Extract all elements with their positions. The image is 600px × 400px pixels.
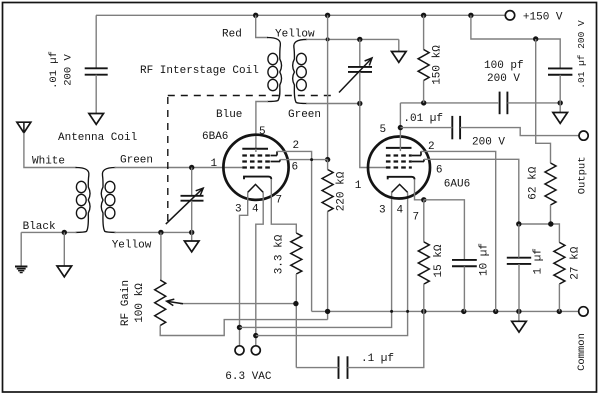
node crossing bus heater3 (390, 310, 393, 313)
V2 grid 1 (386, 166, 412, 168)
variable capacitor C3 interstage tuning (348, 66, 372, 68)
inductor antenna coil primary (76, 168, 91, 233)
V2 pin 6 wire (412, 161, 424, 163)
node junction top rail / screen feed (325, 13, 330, 18)
svg-text:7: 7 (413, 212, 420, 224)
wire Green lead (306, 103, 360, 105)
V2 plate (386, 147, 412, 149)
wire 1uf leads (518, 224, 520, 258)
resistor 150 kOhm (423, 15, 425, 49)
wire C2 bottom lead (191, 201, 193, 233)
V2 heater (392, 184, 408, 192)
node junction top rail / 150k (421, 13, 426, 18)
antenna (17, 122, 31, 133)
svg-text:5: 5 (259, 126, 266, 138)
terminal 6.3VAC right (251, 346, 260, 355)
wire Black lead (21, 231, 76, 233)
wire ground stem bypass (559, 103, 561, 113)
wire Red lead (256, 15, 268, 37)
V2 grid 2 (386, 160, 412, 162)
wiper arrow (167, 301, 183, 304)
arrow of C2 (166, 188, 203, 224)
svg-text:5: 5 (380, 124, 387, 136)
wire coupling left (400, 127, 452, 129)
terminal 6.3VAC left (235, 346, 244, 355)
wire from top rail to C1 (95, 15, 97, 68)
svg-text:6BA6: 6BA6 (202, 131, 228, 143)
inductor antenna coil secondary (101, 168, 116, 233)
wire .1uf right lead (348, 311, 424, 367)
svg-text:RF Interstage Coil: RF Interstage Coil (140, 65, 259, 77)
V2 grid 3 (386, 154, 412, 156)
arrow of C3 (339, 58, 372, 93)
svg-text:7: 7 (276, 195, 283, 207)
ground below bypass cap (553, 113, 568, 124)
wire pot bottom to 220k return (160, 320, 327, 336)
V1 pin 7 wire cathode (271, 179, 296, 233)
svg-text:100 pf: 100 pf (484, 60, 524, 72)
svg-text:6AU6: 6AU6 (444, 178, 470, 190)
capacitor .01 uf coupling (451, 116, 453, 139)
capacitor 100 pf (499, 92, 501, 115)
node junction bus / 10uf (461, 309, 466, 314)
capacitor 1 uf (507, 257, 531, 259)
potentiometer RF Gain 100k (155, 280, 166, 326)
node junction bus / pin2 V2 (493, 309, 498, 314)
svg-text:6: 6 (292, 162, 299, 174)
resistor 15 kOhm (418, 242, 429, 284)
resistor 220 kOhm (322, 170, 333, 212)
svg-text:220 kΩ: 220 kΩ (336, 171, 348, 211)
node junction plate / coupling (398, 125, 403, 130)
wire .1uf left lead (296, 367, 338, 369)
inductor interstage primary (267, 38, 282, 102)
V2 pin 7 wire cathode (415, 179, 424, 199)
svg-text:3: 3 (379, 205, 386, 217)
wire common bus (312, 310, 579, 312)
node junction plate / 150k (421, 100, 426, 105)
svg-text:1: 1 (211, 158, 218, 170)
svg-text:1 µf: 1 µf (533, 248, 545, 274)
wire 15k bottom (423, 284, 425, 311)
node junction grid line / C2 (189, 165, 194, 170)
ground below bus (518, 311, 520, 321)
wire 100pf to bypass node (507, 102, 560, 104)
svg-text:4: 4 (397, 205, 404, 217)
svg-text:6: 6 (436, 165, 443, 177)
wire cap to ground node (559, 75, 561, 103)
wire to ground under C2 (191, 232, 193, 241)
svg-text:Output: Output (576, 156, 588, 194)
svg-text:2: 2 (293, 140, 300, 152)
node crossing bus heater4 (406, 310, 409, 313)
node junction Black lead (62, 230, 67, 235)
node junction 220k top / tube1 pin6 (325, 157, 330, 162)
svg-text:Red: Red (222, 29, 242, 41)
svg-text:200 V: 200 V (472, 137, 505, 149)
svg-text:Green: Green (288, 109, 321, 121)
wire plate feed (400, 102, 498, 104)
node crossing pin2/pin6 (310, 158, 313, 161)
svg-text:Black: Black (23, 221, 56, 233)
node junction yellow line / C3 top (357, 37, 362, 42)
resistor 62 kOhm (545, 163, 556, 205)
node junction cathode V2 (421, 197, 426, 202)
wire antenna to coil (White) (24, 133, 77, 168)
inductor interstage secondary (293, 39, 308, 103)
wire grid feed to tube2 (360, 104, 387, 168)
ground below yellow interstage (392, 52, 407, 63)
wire rf gain top lead (160, 232, 162, 280)
resistor 27 kOhm (554, 242, 565, 284)
ground below C1 (89, 114, 104, 125)
svg-text:Antenna Coil: Antenna Coil (58, 132, 137, 144)
V1 pin 2 wire (271, 155, 278, 157)
node junction 1uf top (516, 221, 521, 226)
wire Yellow lead to ground (306, 38, 399, 40)
V2 pin 5 wire (399, 103, 401, 148)
svg-text:6.3 VAC: 6.3 VAC (225, 371, 272, 383)
wire Green lead to tube1 grid (115, 167, 243, 169)
node junction heater pin3 (237, 325, 242, 330)
node junction heater pin4 (253, 333, 258, 338)
capacitor .1 uf (338, 356, 340, 379)
node junction feed / 62k (533, 36, 538, 41)
wire 62k feed (536, 39, 551, 163)
node junction yellow / rf gain (158, 230, 163, 235)
V2 cathode (388, 177, 415, 180)
node junction yellow / ground (189, 230, 194, 235)
wire C2 top lead (191, 168, 193, 196)
wire +150V top rail (96, 14, 505, 16)
svg-text:200 V: 200 V (63, 54, 75, 86)
svg-text:+150 V: +150 V (523, 11, 563, 23)
wire 62k bottom (550, 205, 552, 224)
V1 grid 3 (242, 154, 270, 156)
wire 3.3k bottom (295, 274, 297, 368)
dashed gang linkage vertical (167, 97, 169, 221)
wire cathode to 10uf (424, 200, 465, 260)
svg-text:Yellow: Yellow (112, 240, 152, 252)
wire Blue lead to tube1 plate (256, 102, 268, 149)
wire C3 top lead (359, 39, 361, 66)
capacitor .01 uf 200 V right (548, 67, 572, 69)
svg-text:Green: Green (120, 155, 153, 167)
variable capacitor C2 antenna tuning (181, 195, 204, 197)
node junction bus / 27k (557, 309, 562, 314)
svg-text:Blue: Blue (216, 109, 242, 121)
svg-text:.01 µf: .01 µf (403, 113, 443, 125)
node junction bypass (558, 100, 563, 105)
wire coupling right to output (460, 128, 579, 136)
wire screen feed from rail (327, 15, 329, 159)
V1 pin 6 wire (271, 161, 281, 163)
wire Yellow lead (115, 231, 192, 233)
V1 plate (242, 148, 268, 150)
svg-text:3.3 kΩ: 3.3 kΩ (274, 234, 286, 274)
wire C1 to ground (95, 75, 97, 114)
svg-text:.1 µf: .1 µf (361, 353, 394, 365)
svg-text:100 kΩ: 100 kΩ (134, 283, 146, 323)
V1 cathode (244, 177, 271, 180)
svg-text:.01 µf: .01 µf (48, 51, 60, 89)
wire 10uf bottom (463, 266, 465, 311)
capacitor C1 .01 uf 200 V (85, 67, 108, 69)
V1 pin 3 wire (240, 192, 248, 345)
V1 grid 2 (242, 160, 270, 162)
wire cathode node segment (519, 224, 560, 242)
wire to earth ground (20, 232, 22, 265)
svg-text:3: 3 (235, 204, 242, 216)
svg-text:2: 2 (428, 141, 435, 153)
svg-text:Common: Common (576, 333, 588, 371)
terminal Output (579, 131, 588, 140)
wire plate feed branch from rail (471, 15, 560, 68)
node junction top rail / plate feed (468, 13, 473, 18)
svg-text:.01 µf 200 V: .01 µf 200 V (576, 20, 587, 89)
svg-text:1: 1 (355, 180, 362, 192)
svg-text:27 kΩ: 27 kΩ (569, 246, 581, 279)
V1 pin 4 wire (256, 192, 263, 345)
svg-text:4: 4 (252, 204, 259, 216)
V2 pin 2 wire (412, 155, 421, 157)
tube V1 6BA6 envelope (223, 135, 288, 200)
wire heater bus pin3 (240, 192, 392, 327)
node junction bus / 1uf (516, 309, 521, 314)
wiper wire (180, 303, 296, 305)
svg-text:RF Gain: RF Gain (120, 280, 132, 326)
wire heater bus pin4 (256, 192, 408, 335)
resistor 3.3 kOhm (291, 233, 302, 274)
wire 15k top (423, 200, 425, 242)
svg-text:15 kΩ: 15 kΩ (433, 244, 445, 277)
node crossing screen feed / yellow (326, 37, 330, 41)
wire C3 bottom lead (359, 72, 361, 104)
svg-text:200 V: 200 V (487, 73, 520, 85)
tube V2 6AU6 envelope (368, 137, 430, 199)
terminal Common (579, 307, 588, 316)
terminal +150 V (505, 11, 514, 20)
node junction bus / 220k (325, 309, 330, 314)
svg-text:10 µf: 10 µf (478, 243, 490, 276)
node junction green / C3 (357, 101, 362, 106)
svg-text:62 kΩ: 62 kΩ (528, 166, 540, 199)
wire ground stem (398, 39, 400, 51)
wire to chassis ground (63, 232, 65, 266)
capacitor 10 uf (452, 259, 477, 261)
svg-text:150 kΩ: 150 kΩ (432, 45, 444, 85)
ground below black lead (57, 266, 72, 277)
ground below tuning cap (184, 241, 199, 252)
V1 grid 1 (242, 166, 270, 168)
wire 27k bottom (558, 284, 560, 311)
dashed gang linkage horizontal (168, 95, 337, 97)
svg-text:White: White (32, 156, 65, 168)
node junction wiper / 3.3k (293, 301, 298, 306)
node junction top rail / red lead (253, 13, 258, 18)
node junction bus / 15k (421, 309, 426, 314)
earth ground (15, 266, 27, 268)
node junction 62k bottom (548, 221, 553, 226)
V1 heater (248, 184, 264, 192)
